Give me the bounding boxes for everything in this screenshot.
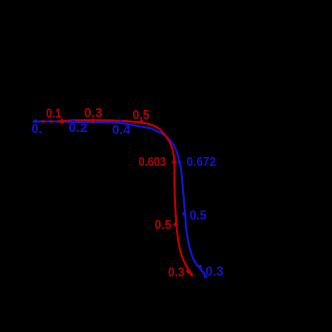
red curve end dot — [190, 273, 193, 276]
svg-text:0.5: 0.5 — [133, 107, 150, 122]
red mesh marker 0.5 mid — [173, 221, 178, 227]
blue curve (lower/outer sigmoid) — [34, 121, 207, 277]
red mesh marker 0.3 bottom — [186, 268, 191, 274]
red dashed overlay on shared left segment — [34, 120, 64, 122]
blue curve end dot — [204, 275, 207, 278]
red mesh marker 0.3 — [90, 118, 95, 124]
svg-text:0.672: 0.672 — [187, 154, 217, 169]
svg-text:0.3: 0.3 — [84, 105, 103, 120]
svg-text:0.1: 0.1 — [46, 106, 62, 121]
blue mesh marker 0.672 — [177, 159, 181, 164]
blue mesh marker 0.5 mid — [182, 211, 186, 216]
blue mesh marker 0.4 — [119, 119, 123, 124]
svg-text:0.2: 0.2 — [69, 120, 88, 135]
blue mesh marker 0.3 bottom — [198, 264, 202, 269]
svg-text:0.603: 0.603 — [139, 154, 167, 169]
blue mesh marker 0.2 — [71, 118, 75, 123]
blue mesh marker t=0 — [33, 119, 37, 124]
svg-text:0.5: 0.5 — [190, 207, 207, 222]
svg-text:0.3: 0.3 — [168, 264, 185, 279]
svg-text:0.5: 0.5 — [155, 217, 172, 232]
svg-text:0.: 0. — [32, 121, 43, 136]
red mesh marker 0.603 — [172, 159, 177, 165]
svg-text:0.4: 0.4 — [112, 122, 131, 137]
red mesh marker 0.5 top — [139, 119, 144, 125]
red mesh marker 0.1 — [59, 118, 64, 124]
red curve (upper/inner sigmoid) — [62, 120, 192, 275]
svg-text:0.3: 0.3 — [206, 264, 224, 279]
